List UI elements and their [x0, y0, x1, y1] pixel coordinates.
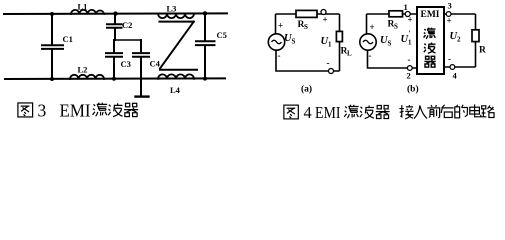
caption 波 (fig4) [360, 105, 374, 118]
caption figure 4 [284, 105, 298, 119]
svg-text:(b): (b) [407, 84, 419, 95]
svg-text:S: S [292, 38, 296, 46]
label - source (b) [369, 51, 372, 61]
resistor R_S (a) [296, 10, 317, 17]
caption figure 3 [18, 103, 33, 117]
svg-text:C1: C1 [63, 34, 73, 44]
label C3 [121, 59, 131, 69]
inductor L3 [158, 14, 194, 19]
svg-text:S: S [388, 40, 392, 48]
wire left lower (a) [276, 50, 340, 71]
capacitor C3 [106, 40, 122, 79]
resistor R_L (a) [336, 31, 342, 41]
caption 前 (fig4) [427, 105, 440, 118]
svg-text:-: - [327, 58, 330, 68]
terminal circle 1 (b) [405, 12, 410, 17]
label 器 in box [424, 56, 435, 67]
resistor R_S (b) [389, 11, 403, 17]
svg-text:L2: L2 [78, 65, 88, 75]
resistor R (b) [472, 30, 479, 42]
label EMI in box [421, 10, 440, 20]
label U_2 (b) [450, 31, 462, 44]
wire bottom right (b) [444, 66, 476, 68]
capacitor C5 [196, 13, 215, 78]
node top C5 [203, 11, 207, 15]
svg-text:-: - [278, 51, 281, 61]
svg-text:-: - [408, 55, 411, 65]
pin 2 (b) [407, 71, 411, 81]
terminal circle 2 (b) [407, 66, 412, 71]
label (a) [301, 84, 312, 95]
svg-text:2: 2 [407, 71, 411, 81]
label C2 [122, 20, 132, 30]
label - U1' (b) [408, 55, 411, 65]
label L4 [170, 85, 181, 95]
label L2 [78, 65, 88, 75]
caption text 3 EMI (fig3) [38, 101, 91, 121]
caption 后 (fig4) [441, 105, 453, 118]
caption 路 (fig4) [481, 105, 494, 117]
svg-text:+: + [408, 15, 413, 25]
label U_1 (a) [321, 36, 333, 49]
label (b) [407, 84, 419, 95]
source U_S (a) [268, 34, 284, 50]
svg-text:1: 1 [408, 39, 412, 47]
label 滤 in box [424, 28, 436, 39]
wire right (b) [475, 14, 477, 67]
EMI filter box U1 [417, 7, 444, 74]
wire top left (b) [367, 13, 418, 15]
svg-text:4: 4 [304, 103, 312, 122]
svg-text:+: + [370, 22, 375, 32]
wire left (b) [366, 14, 368, 34]
label L1 [78, 1, 88, 11]
caption 入 (fig4) [414, 105, 427, 118]
wire left lower (b) [368, 50, 418, 68]
ground [136, 95, 149, 97]
svg-text:R: R [479, 46, 486, 56]
node top C1 [50, 12, 54, 16]
label C5 [217, 30, 227, 40]
label R_S (b) [388, 20, 399, 31]
node bottom C3 [112, 77, 116, 81]
label U_S (a) [284, 33, 296, 46]
capacitor C4 [133, 40, 149, 96]
caption text 4 EMI (fig4) [304, 103, 341, 122]
transformer Z symbol [160, 22, 198, 70]
label R_S (a) [298, 20, 309, 31]
svg-text:′: ′ [409, 29, 411, 38]
label + source (b) [370, 22, 375, 32]
label - terminal (a) [327, 58, 330, 68]
svg-text:+: + [323, 15, 328, 25]
terminal + circle top (a) [321, 10, 326, 15]
terminal circle bottom (a) [329, 69, 334, 74]
svg-text:S: S [304, 23, 308, 31]
caption 接 (fig4) [399, 105, 413, 119]
svg-text:2: 2 [457, 36, 461, 44]
node top C2 [113, 11, 117, 15]
svg-text:(a): (a) [301, 84, 312, 95]
caption 波 (fig3) [108, 103, 122, 116]
inductor L4 [158, 74, 194, 78]
caption 滤 (fig4) [344, 105, 358, 118]
svg-text:EMI: EMI [315, 103, 341, 122]
label R_L (a) [341, 47, 353, 58]
wire left (a) [275, 14, 277, 34]
label U_S (b) [380, 35, 392, 48]
svg-text:1: 1 [404, 2, 408, 12]
caption 电 (fig4) [470, 104, 481, 116]
pin 4 (b) [453, 71, 458, 81]
label - U2 (b) [448, 54, 451, 64]
source U_S (b) [360, 34, 376, 50]
label + terminal (a) [323, 15, 328, 25]
svg-text:1: 1 [328, 41, 332, 49]
node bottom C1 [50, 77, 54, 81]
pin 1 (b) [404, 2, 408, 12]
wire node branch [115, 39, 141, 41]
caption 滤 (fig3) [93, 103, 108, 117]
wire right (a) [339, 14, 341, 71]
node bottom C5 [203, 77, 207, 81]
svg-text:C4: C4 [150, 59, 161, 69]
caption 图 (fig3) [18, 103, 33, 117]
caption 图 (fig4) [284, 105, 298, 119]
svg-text:L1: L1 [78, 1, 88, 11]
label 波 in box [424, 43, 436, 54]
label U_1' (b) [401, 29, 413, 47]
svg-text:EMI: EMI [421, 10, 440, 20]
capacitor C1 [42, 14, 63, 79]
label + U2 (b) [447, 16, 452, 26]
svg-text:3: 3 [448, 1, 452, 11]
svg-text:L: L [347, 50, 352, 58]
svg-text:L4: L4 [170, 85, 181, 95]
svg-text:L3: L3 [167, 4, 177, 14]
wire bottom rail [5, 77, 225, 80]
label C1 [63, 34, 73, 44]
label R load (b) [479, 46, 486, 56]
wire top rail [4, 12, 227, 15]
svg-text:+: + [278, 21, 283, 31]
label C4 [150, 59, 161, 69]
capacitor C2 [107, 14, 122, 40]
label + U1' (b) [408, 15, 413, 25]
svg-text:-: - [369, 51, 372, 61]
caption 器 (fig4) [376, 105, 390, 118]
svg-text:EMI: EMI [60, 101, 91, 121]
caption 的 (fig4) [455, 105, 468, 118]
caption 器 (fig3) [124, 103, 138, 116]
terminal circle 4 (b) [450, 65, 455, 70]
svg-text:S: S [394, 23, 398, 31]
terminal circle 3 (b) [446, 12, 451, 17]
label L3 [167, 4, 177, 14]
svg-text:4: 4 [453, 71, 458, 81]
svg-text:C2: C2 [122, 20, 132, 30]
label - source (a) [278, 51, 281, 61]
svg-text:C5: C5 [217, 30, 227, 40]
svg-text:C3: C3 [121, 59, 131, 69]
svg-text:3: 3 [38, 101, 47, 121]
inductor L2 [70, 75, 104, 79]
wire top (a) [276, 13, 340, 15]
svg-text:+: + [447, 16, 452, 26]
pin 3 (b) [448, 1, 452, 11]
svg-text:-: - [448, 54, 451, 64]
label + source (a) [278, 21, 283, 31]
wire top right (b) [444, 13, 476, 15]
inductor L1 [71, 10, 104, 14]
